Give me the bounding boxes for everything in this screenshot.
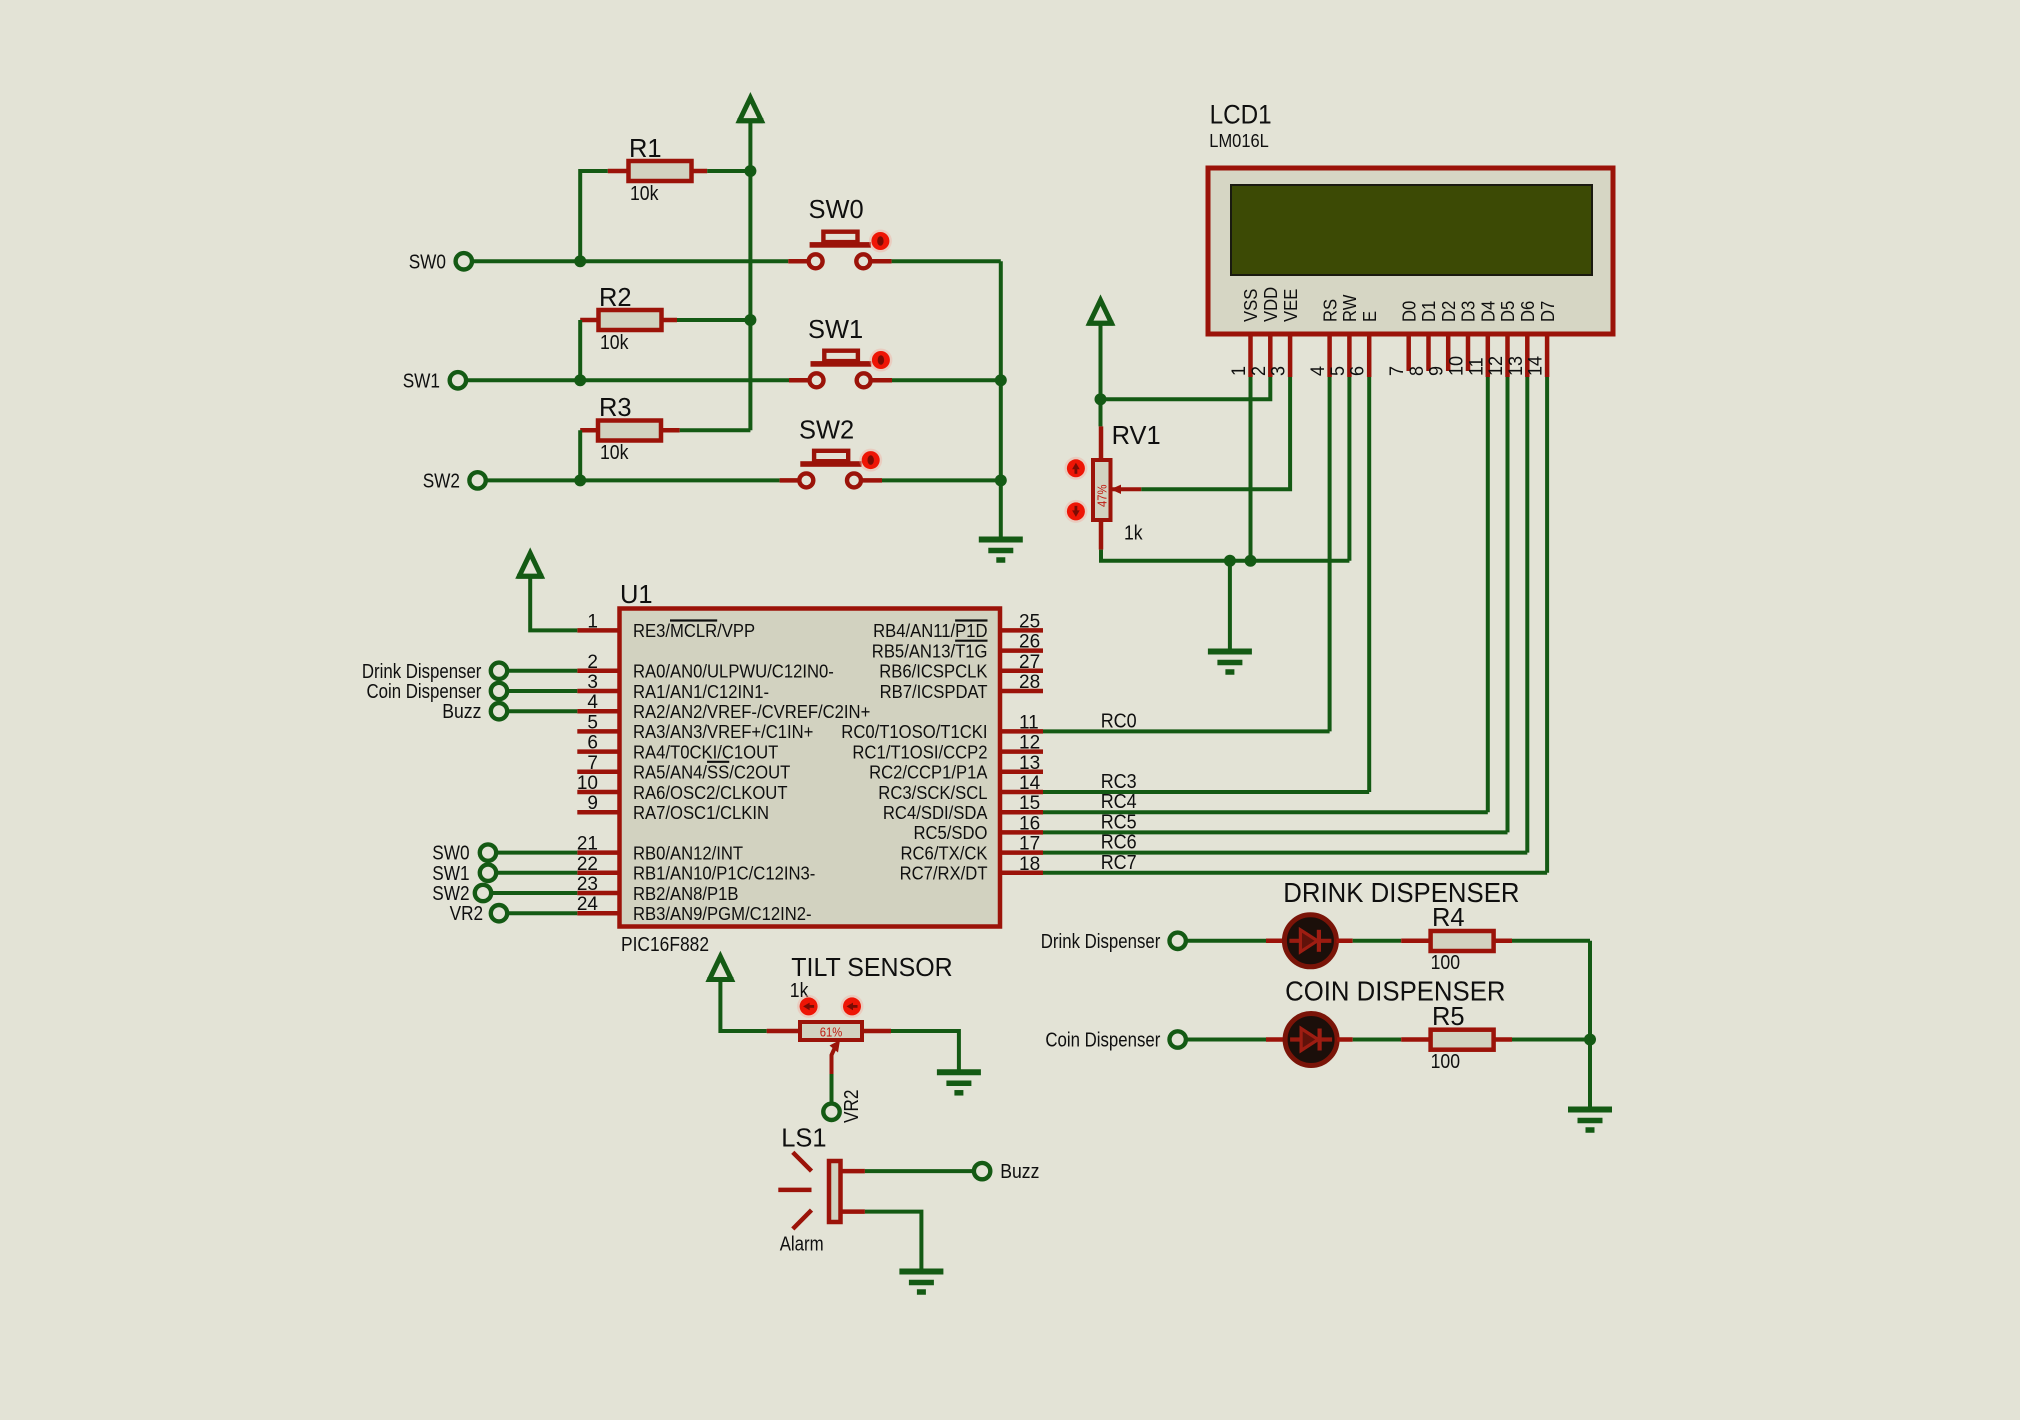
svg-text:7: 7 [1387,366,1408,376]
svg-text:RC0: RC0 [1101,710,1137,732]
terminal VR2 (wiper out) [823,1090,863,1124]
terminal Coin Dispenser (output) [1045,1030,1186,1052]
resistor R2 [580,282,677,354]
wire RC0 net [1043,729,1330,733]
wire bus to ground [1228,561,1232,652]
svg-text:13: 13 [1019,753,1040,774]
svg-text:1k: 1k [1124,523,1143,545]
svg-text:RC2/CCP1/P1A: RC2/CCP1/P1A [869,762,988,783]
wire LED to R4 [1353,939,1402,943]
svg-text:D7: D7 [1537,301,1558,322]
svg-text:RB3/AN9/PGM/C12IN2-: RB3/AN9/PGM/C12IN2- [633,903,812,924]
wire SW2 to right bus [882,478,1001,482]
LED D2 coin dispenser [1266,1014,1353,1066]
svg-text:SW0: SW0 [432,843,469,865]
ground (tilt sensor) [937,1072,981,1093]
tilt right indicator [841,995,864,1018]
wire VSS to ground bus [1249,377,1253,561]
svg-text:13: 13 [1506,356,1527,376]
svg-text:R4: R4 [1432,902,1465,932]
net label RC6 [1101,832,1137,854]
svg-text:RW: RW [1339,294,1360,322]
terminal SW0 (RB0) [432,843,496,865]
svg-text:LCD1: LCD1 [1210,99,1272,129]
svg-text:3: 3 [1269,366,1290,376]
svg-text:RC5/SDO: RC5/SDO [914,822,988,843]
svg-text:D1: D1 [1418,301,1439,322]
terminal Buzz (to RA2) [974,1161,1040,1183]
svg-text:10: 10 [1447,356,1468,376]
svg-text:SW2: SW2 [423,471,460,493]
speaker LS1 (alarm) [778,1123,865,1256]
svg-text:VR2: VR2 [450,903,484,925]
svg-text:D6: D6 [1517,301,1538,322]
LCD display LCD1 (LM016L) [1208,99,1613,334]
svg-text:25: 25 [1019,611,1040,632]
node SW2/R3 junction [574,474,586,486]
svg-text:14: 14 [1019,773,1041,794]
svg-text:4: 4 [1308,366,1329,376]
wire SW2 row [486,478,779,482]
svg-text:D4: D4 [1478,301,1499,322]
IC U1 PIC16F882 [620,579,1001,956]
svg-text:61%: 61% [820,1026,843,1040]
svg-text:Coin Dispenser: Coin Dispenser [367,681,482,703]
ground (LCD/RV1) [1208,652,1252,673]
wire RC6 net [1043,851,1527,855]
wire D6 to RC6 [1525,377,1529,853]
wire VDD branch [1101,377,1271,399]
terminal VR2 (RB3) [450,903,508,925]
switch SW1 (pushbutton) [789,314,892,387]
svg-text:Drink Dispenser: Drink Dispenser [1041,931,1161,953]
svg-text:11: 11 [1466,357,1487,376]
svg-text:RC4/SDI/SDA: RC4/SDI/SDA [883,802,988,823]
power +5V symbol (tilt sensor) [707,957,733,980]
power +5V symbol (LCD rail) [1088,300,1114,323]
svg-text:DRINK DISPENSER: DRINK DISPENSER [1283,877,1519,908]
svg-text:5: 5 [587,712,598,733]
label COIN DISPENSER [1285,976,1505,1007]
svg-text:D2: D2 [1438,301,1459,322]
svg-text:RA3/AN3/VREF+/C1IN+: RA3/AN3/VREF+/C1IN+ [633,721,813,742]
svg-text:RC7: RC7 [1101,852,1137,874]
svg-text:RC6: RC6 [1101,832,1137,854]
svg-text:Buzz: Buzz [442,701,481,723]
svg-text:RA1/AN1/C12IN1-: RA1/AN1/C12IN1- [633,681,769,702]
wire LED to R5 [1353,1038,1402,1042]
wire SW0 terminal to pin 21 [497,851,578,855]
svg-text:RB1/AN10/P1C/C12IN3-: RB1/AN10/P1C/C12IN3- [633,863,815,884]
power +5V symbol (top rail) [737,98,763,121]
ground (switch bus) [979,540,1023,561]
label DRINK DISPENSER [1283,877,1519,908]
wire RW to ground bus [1347,377,1351,561]
svg-text:8: 8 [1407,366,1428,376]
svg-text:RC3: RC3 [1101,771,1137,793]
wire R3 left to SW2 row [578,430,582,480]
svg-text:10k: 10k [600,442,629,464]
svg-text:10k: 10k [630,183,659,205]
svg-text:16: 16 [1019,813,1040,834]
wire R1 right to rail [707,169,750,173]
svg-text:SW1: SW1 [403,371,440,393]
svg-text:RA5/AN4/SS/C2OUT: RA5/AN4/SS/C2OUT [633,762,790,783]
node bus/SW2 junction [995,474,1007,486]
svg-text:100: 100 [1431,952,1460,974]
svg-text:23: 23 [577,874,598,895]
svg-text:VDD: VDD [1260,287,1281,322]
wire D5 to RC5 [1506,377,1510,832]
wire R2 right to rail [677,318,750,322]
svg-text:RA4/T0CKI/C1OUT: RA4/T0CKI/C1OUT [633,741,778,762]
wire power rail vertical [748,120,752,430]
svg-text:D3: D3 [1458,301,1479,322]
svg-text:SW0: SW0 [809,194,864,224]
net label RC3 [1101,771,1137,793]
wire Coin terminal to LED [1186,1038,1266,1042]
svg-text:14: 14 [1526,355,1547,376]
wire RV1 bottom to ground bus [1101,550,1349,561]
terminal SW0 (input) [409,252,472,274]
wire Buzz terminal to pin 4 [508,709,578,713]
wire right ground bus [999,261,1003,539]
svg-text:TILT SENSOR: TILT SENSOR [791,952,952,982]
wire E to RC3 [1367,377,1371,792]
wire Coin terminal to pin 3 [508,689,578,693]
svg-text:RC3/SCK/SCL: RC3/SCK/SCL [878,782,987,803]
svg-text:RB5/AN13/T1G: RB5/AN13/T1G [872,640,988,661]
svg-text:6: 6 [587,733,598,754]
wire SW0 row [473,259,789,263]
node bus/SW1 junction [995,374,1007,386]
net label RC0 [1101,710,1137,732]
terminal SW2 (input) [423,471,486,493]
svg-text:RB2/AN8/P1B: RB2/AN8/P1B [633,883,739,904]
svg-text:17: 17 [1019,834,1040,855]
node rail/VDD junction [1095,393,1107,405]
terminal Drink Dispenser (RA0) [362,661,507,683]
svg-text:SW2: SW2 [799,415,854,445]
svg-text:RA0/AN0/ULPWU/C12IN0-: RA0/AN0/ULPWU/C12IN0- [633,661,834,682]
svg-text:7: 7 [587,753,598,774]
wire SW1 to right bus [892,378,1001,382]
wire R1 left to SW0 row [580,171,608,261]
svg-text:Coin Dispenser: Coin Dispenser [1045,1030,1160,1052]
wire Drink terminal to pin 2 [508,669,578,673]
svg-text:U1: U1 [620,579,653,609]
svg-text:10: 10 [577,773,598,794]
svg-text:21: 21 [577,834,598,855]
ground (LS1) [899,1272,943,1293]
svg-text:RC1/T1OSI/CCP2: RC1/T1OSI/CCP2 [852,741,987,762]
wire RC3 net [1043,790,1369,794]
node VSS/bus junction [1245,555,1257,567]
svg-text:12: 12 [1486,356,1507,376]
wire SW1 terminal to pin 22 [497,871,578,875]
resistor R1 [608,133,708,205]
svg-text:2: 2 [587,652,598,673]
svg-text:RC6/TX/CK: RC6/TX/CK [901,842,989,863]
RV1 down indicator [1064,500,1087,523]
node gnd-tap junction [1224,555,1236,567]
svg-text:5: 5 [1328,366,1349,376]
terminal SW1 (RB1) [432,863,496,885]
svg-text:100: 100 [1431,1051,1460,1073]
wire SW0 to right bus [892,259,1001,263]
svg-text:RB4/AN11/P1D: RB4/AN11/P1D [873,620,987,641]
svg-text:R1: R1 [629,133,662,163]
switch SW0 (pushbutton) [788,194,892,268]
node bus/R5 junction [1584,1034,1596,1046]
svg-text:SW1: SW1 [808,314,863,344]
wire RC7 net [1043,871,1547,875]
svg-text:Drink Dispenser: Drink Dispenser [362,661,482,683]
svg-text:RS: RS [1319,299,1340,322]
svg-text:PIC16F882: PIC16F882 [621,934,709,956]
svg-text:RA7/OSC1/CLKIN: RA7/OSC1/CLKIN [633,802,769,823]
terminal SW2 (RB2) [432,883,491,905]
svg-text:12: 12 [1019,733,1040,754]
power +5V symbol (U1 MCLR) [517,553,543,576]
wire SW1 row [467,378,789,382]
svg-text:RC0/T1OSO/T1CKI: RC0/T1OSO/T1CKI [841,721,987,742]
wire +5V to pot left [720,980,766,1032]
LCD pin stubs and pin numbers 1-14 [1229,334,1547,377]
svg-text:RA6/OSC2/CLKOUT: RA6/OSC2/CLKOUT [633,782,788,803]
resistor R4 (100) [1401,902,1512,974]
wire R2 left to SW1 row [578,320,582,380]
RV1 up indicator [1064,457,1087,480]
wire LS1 bottom to ground [865,1212,922,1272]
svg-text:28: 28 [1019,672,1040,693]
svg-text:E: E [1359,311,1380,322]
LED D1 drink dispenser [1266,915,1353,967]
svg-text:2: 2 [1249,366,1270,376]
svg-text:R3: R3 [599,392,632,422]
svg-text:Alarm: Alarm [780,1234,824,1256]
svg-text:18: 18 [1019,854,1040,875]
svg-text:47%: 47% [1096,485,1110,508]
svg-text:D0: D0 [1398,301,1419,322]
wire RS to RC0 [1328,377,1332,731]
wire D7 to RC7 [1545,377,1549,873]
svg-text:6: 6 [1348,366,1369,376]
tilt left indicator [797,995,820,1018]
wire RC4 net [1043,810,1488,814]
wire LCD power rail [1099,323,1103,426]
svg-text:SW0: SW0 [409,252,446,274]
wire SW2 terminal to pin 23 [492,891,578,895]
svg-text:D5: D5 [1497,301,1518,322]
svg-text:1: 1 [1229,366,1250,376]
svg-text:LM016L: LM016L [1209,130,1269,151]
terminal Coin Dispenser (RA1) [367,681,508,703]
svg-text:RC4: RC4 [1101,791,1137,813]
svg-text:VEE: VEE [1280,289,1301,322]
svg-text:SW2: SW2 [432,883,469,905]
wire R5 to right bus [1512,1038,1590,1042]
U1 right pin stubs with numbers [1000,611,1043,874]
wire Drink terminal to LED [1186,939,1266,943]
net label RC4 [1101,791,1137,813]
wire VR2 terminal to pin 24 [508,911,578,915]
switch SW2 (pushbutton) [780,415,883,488]
svg-text:9: 9 [587,793,598,814]
svg-text:RE3/MCLR/VPP: RE3/MCLR/VPP [633,620,755,641]
svg-text:27: 27 [1019,652,1040,673]
wire LS1 top to Buzz [865,1169,974,1173]
node R1/rail junction [744,165,756,177]
svg-text:VSS: VSS [1240,289,1261,322]
svg-text:RB6/ICSPCLK: RB6/ICSPCLK [879,661,988,682]
node R2/rail junction [744,314,756,326]
svg-text:9: 9 [1427,366,1448,376]
wire RC5 net [1043,830,1508,834]
ground (dispenser bus) [1568,1110,1612,1131]
svg-text:RV1: RV1 [1112,420,1161,450]
svg-text:RB7/ICSPDAT: RB7/ICSPDAT [880,681,988,702]
svg-text:24: 24 [577,894,599,915]
svg-text:COIN DISPENSER: COIN DISPENSER [1285,976,1505,1007]
terminal Drink Dispenser (output) [1041,931,1186,953]
svg-text:RC5: RC5 [1101,811,1137,833]
terminal Buzz (RA2) [442,701,507,723]
wire dispenser right bus [1588,941,1592,1110]
wire +5V to pin 1 [530,576,577,630]
wire R3 right to rail [680,428,751,432]
svg-text:LS1: LS1 [781,1123,826,1153]
wire VEE to RV1 wiper [1141,377,1290,489]
svg-text:1: 1 [587,611,598,632]
svg-text:11: 11 [1019,712,1039,733]
svg-text:22: 22 [577,854,598,875]
svg-text:SW1: SW1 [432,863,469,885]
node SW0/R1 junction [574,255,586,267]
potentiometer VR2 tilt sensor (1k) [767,952,953,1074]
svg-text:4: 4 [587,692,598,713]
svg-text:R5: R5 [1432,1001,1465,1031]
svg-text:Buzz: Buzz [1000,1161,1039,1183]
wire R4 to right bus [1512,939,1590,943]
svg-text:10k: 10k [600,332,629,354]
wire wiper to VR2 terminal [830,1074,834,1104]
wire pot right to ground [891,1031,959,1072]
terminal SW1 (input) [403,371,466,393]
svg-text:R2: R2 [599,282,632,312]
resistor R5 (100) [1401,1001,1512,1073]
wire D4 to RC4 [1486,377,1490,812]
svg-text:3: 3 [587,672,598,693]
svg-text:VR2: VR2 [841,1090,863,1124]
U1 left pin stubs with numbers [577,611,620,915]
net label RC5 [1101,811,1137,833]
svg-text:RA2/AN2/VREF-/CVREF/C2IN+: RA2/AN2/VREF-/CVREF/C2IN+ [633,701,870,722]
svg-text:15: 15 [1019,793,1040,814]
svg-text:RB0/AN12/INT: RB0/AN12/INT [633,842,743,863]
svg-text:RC7/RX/DT: RC7/RX/DT [900,863,988,884]
svg-text:26: 26 [1019,632,1040,653]
resistor R3 [580,392,680,464]
node SW1/R2 junction [574,374,586,386]
net label RC7 [1101,852,1137,874]
potentiometer RV1 (1k) [1093,420,1161,550]
